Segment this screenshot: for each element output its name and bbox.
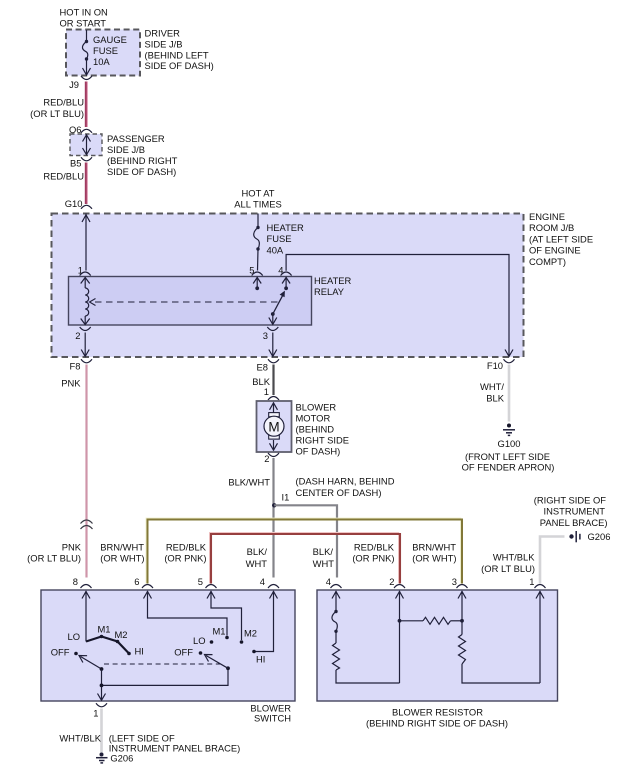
svg-text:HOT IN ON: HOT IN ON xyxy=(60,7,108,18)
svg-text:WHT/BLK: WHT/BLK xyxy=(59,733,101,744)
svg-text:(BEHIND: (BEHIND xyxy=(296,423,335,434)
svg-text:I1: I1 xyxy=(282,492,290,503)
svg-text:RED/BLK: RED/BLK xyxy=(354,542,395,553)
junction block engine room J/B xyxy=(52,214,524,358)
resistor box blower resistor xyxy=(317,590,558,701)
relay contact pin 4 stub xyxy=(282,277,290,288)
svg-text:(FRONT LEFT SIDE: (FRONT LEFT SIDE xyxy=(465,451,550,462)
svg-text:LO: LO xyxy=(193,635,206,646)
label blower motor xyxy=(296,401,349,456)
svg-text:BLK/: BLK/ xyxy=(247,546,268,557)
thermal fuse in resistor xyxy=(334,610,337,613)
svg-text:G100: G100 xyxy=(498,438,521,449)
svg-text:(AT LEFT SIDE: (AT LEFT SIDE xyxy=(529,233,593,244)
svg-text:SIDE OF DASH): SIDE OF DASH) xyxy=(107,166,176,177)
wire RED/BLK switch pin 5 to resistor pin 2 xyxy=(210,533,399,584)
svg-text:F10: F10 xyxy=(487,360,503,371)
blower motor box xyxy=(257,401,292,452)
wire BLK E8 to blower motor xyxy=(272,365,274,396)
wire label BLK/WHT left xyxy=(246,546,268,569)
svg-text:BLK/: BLK/ xyxy=(313,546,334,557)
svg-text:OF DASH): OF DASH) xyxy=(296,445,341,456)
svg-text:BLOWER: BLOWER xyxy=(296,401,337,412)
svg-text:2: 2 xyxy=(389,576,394,587)
svg-text:J9: J9 xyxy=(69,79,79,90)
wire G10 to relay pin 1 xyxy=(82,214,90,271)
svg-text:SIDE J/B: SIDE J/B xyxy=(145,39,183,50)
wire label PNK (OR LT BLU) xyxy=(27,542,82,564)
svg-text:(RIGHT SIDE OF: (RIGHT SIDE OF xyxy=(534,495,606,506)
svg-text:DRIVER: DRIVER xyxy=(145,28,181,39)
svg-text:OR START: OR START xyxy=(60,17,107,28)
svg-text:(OR LT BLU): (OR LT BLU) xyxy=(481,563,535,574)
ground G206 right xyxy=(569,534,573,538)
wire BLK/WHT I1 branch to resistor pin 4 xyxy=(274,505,337,577)
right switch contacts xyxy=(210,640,214,644)
left OFF contact xyxy=(74,652,78,656)
svg-text:BLK: BLK xyxy=(486,392,504,403)
svg-text:OF ENGINE: OF ENGINE xyxy=(529,245,581,256)
svg-text:8: 8 xyxy=(73,576,78,587)
svg-text:F8: F8 xyxy=(70,361,81,372)
svg-text:FUSE: FUSE xyxy=(267,233,292,244)
mechanical link dashed xyxy=(104,663,222,665)
junction block driver side J/B xyxy=(66,30,140,76)
svg-text:OFF: OFF xyxy=(51,647,70,658)
switch box blower switch xyxy=(41,590,295,701)
wire label WHT/BLK (OR LT BLU) xyxy=(481,552,535,575)
svg-text:SIDE J/B: SIDE J/B xyxy=(107,144,145,155)
svg-text:HI: HI xyxy=(256,654,265,665)
svg-text:OF FENDER APRON): OF FENDER APRON) xyxy=(462,461,555,472)
label blower resistor xyxy=(366,707,508,729)
svg-text:LO: LO xyxy=(67,631,80,642)
svg-text:ROOM J/B: ROOM J/B xyxy=(529,222,574,233)
relay coil xyxy=(81,277,90,324)
wire label BRN/WHT (OR WHT) right xyxy=(412,542,456,564)
svg-text:M1: M1 xyxy=(213,626,226,637)
ground G100 xyxy=(507,424,511,428)
svg-text:1: 1 xyxy=(93,708,98,719)
wire label RED/BLK (OR PNK) left xyxy=(164,542,206,564)
svg-text:ENGINE: ENGINE xyxy=(529,211,565,222)
label dash harness xyxy=(296,476,395,499)
svg-text:BRN/WHT: BRN/WHT xyxy=(100,542,144,553)
svg-text:G206: G206 xyxy=(110,753,133,764)
svg-text:(OR PNK): (OR PNK) xyxy=(164,553,206,564)
svg-text:HEATER: HEATER xyxy=(314,275,352,286)
wire BLK/WHT motor to switch pin 4 xyxy=(272,458,274,578)
wire relay pin 4 to F10 xyxy=(286,255,513,357)
svg-text:(BEHIND RIGHT: (BEHIND RIGHT xyxy=(107,155,178,166)
svg-text:M1: M1 xyxy=(98,624,111,635)
wire arrow through passenger J/B xyxy=(83,135,91,156)
inline connector on PNK wire xyxy=(81,520,93,529)
relay switch blade xyxy=(273,295,283,314)
label blower switch xyxy=(250,703,291,724)
resistor element horizontal xyxy=(400,617,463,624)
svg-text:HEATER: HEATER xyxy=(267,222,305,233)
svg-text:BLK/WHT: BLK/WHT xyxy=(228,477,270,488)
wire WHT/BLK switch pin 1 to G206 xyxy=(100,709,103,753)
svg-text:ALL TIMES: ALL TIMES xyxy=(234,199,281,210)
relay contact pin 3 riser xyxy=(269,314,277,324)
label driver side J/B xyxy=(145,28,214,71)
svg-text:PNK: PNK xyxy=(61,378,81,389)
svg-text:2: 2 xyxy=(75,330,80,341)
svg-text:(OR PNK): (OR PNK) xyxy=(352,553,394,564)
svg-text:HI: HI xyxy=(135,646,144,657)
svg-text:(OR LT BLU): (OR LT BLU) xyxy=(30,108,84,119)
svg-text:INSTRUMENT: INSTRUMENT xyxy=(544,506,606,517)
junction block passenger side J/B xyxy=(70,134,102,156)
svg-text:5: 5 xyxy=(198,576,203,587)
svg-text:10A: 10A xyxy=(93,56,110,67)
relay contact pin 5 stub xyxy=(253,277,261,288)
svg-text:G206: G206 xyxy=(588,531,611,542)
svg-text:WHT: WHT xyxy=(246,558,268,569)
svg-text:6: 6 xyxy=(134,576,139,587)
label RED/BLU (OR LT BLU) xyxy=(30,97,84,119)
svg-text:SIDE OF DASH): SIDE OF DASH) xyxy=(145,60,214,71)
svg-text:B5: B5 xyxy=(70,158,81,169)
svg-text:CENTER OF DASH): CENTER OF DASH) xyxy=(296,487,382,498)
node HOT AT ALL TIMES xyxy=(234,188,281,210)
right wiper arm xyxy=(206,656,228,669)
svg-text:(OR WHT): (OR WHT) xyxy=(412,553,456,564)
svg-text:(OR WHT): (OR WHT) xyxy=(100,553,144,564)
wire BRN/WHT switch pin 6 to resistor pin 3 xyxy=(146,518,461,583)
relay mechanical link dashed xyxy=(95,301,279,303)
svg-text:1: 1 xyxy=(264,386,269,397)
svg-text:4: 4 xyxy=(326,576,331,587)
label passenger side J/B xyxy=(107,133,178,177)
svg-text:RIGHT SIDE: RIGHT SIDE xyxy=(296,434,349,445)
svg-text:RED/BLK: RED/BLK xyxy=(166,542,207,553)
svg-text:BRN/WHT: BRN/WHT xyxy=(412,542,456,553)
ground G206 bottom xyxy=(100,753,104,757)
svg-text:RED/BLU: RED/BLU xyxy=(43,171,84,182)
svg-text:BLOWER RESISTOR: BLOWER RESISTOR xyxy=(392,707,483,718)
wire label BRN/WHT (OR WHT) left xyxy=(100,542,144,564)
label left side of instrument panel brace xyxy=(109,733,241,754)
wire WHT/BLK resistor pin 1 to G206 xyxy=(540,537,565,584)
svg-text:WHT/: WHT/ xyxy=(480,381,504,392)
label G206 right side xyxy=(534,495,608,529)
svg-text:40A: 40A xyxy=(267,244,284,255)
svg-text:G10: G10 xyxy=(65,198,83,209)
svg-text:PANEL BRACE): PANEL BRACE) xyxy=(540,517,608,528)
wire RED/BLU J9 to Q6 xyxy=(85,82,87,128)
svg-text:OFF: OFF xyxy=(174,647,193,658)
resistor element pin 4 branch xyxy=(333,631,400,683)
svg-text:3: 3 xyxy=(452,576,457,587)
svg-text:(BEHIND LEFT: (BEHIND LEFT xyxy=(145,49,209,60)
svg-text:(BEHIND RIGHT SIDE OF DASH): (BEHIND RIGHT SIDE OF DASH) xyxy=(366,718,508,729)
svg-text:1: 1 xyxy=(529,576,534,587)
wire wiper common to pin 1 xyxy=(98,668,229,700)
svg-text:COMPT): COMPT) xyxy=(529,256,566,267)
motor M symbol xyxy=(270,403,278,451)
wire label RED/BLK (OR PNK) right xyxy=(352,542,394,564)
left rotary contact arc xyxy=(86,637,129,654)
svg-text:GAUGE: GAUGE xyxy=(93,34,127,45)
svg-text:MOTOR: MOTOR xyxy=(296,412,331,423)
svg-text:PASSENGER: PASSENGER xyxy=(107,133,165,144)
svg-text:(DASH HARN, BEHIND: (DASH HARN, BEHIND xyxy=(296,476,395,487)
svg-text:HOT AT: HOT AT xyxy=(242,188,275,199)
svg-text:4: 4 xyxy=(260,576,265,587)
label engine room J/B xyxy=(529,211,593,267)
wire label BLK/WHT right xyxy=(313,546,335,569)
node HOT IN ON OR START xyxy=(60,7,108,29)
wire WHT/BLK F10 to G100 xyxy=(508,365,511,422)
label WHT/BLK F10 xyxy=(480,381,505,403)
left wiper arm xyxy=(81,657,102,670)
relay box heater relay xyxy=(69,277,312,326)
svg-text:(OR LT BLU): (OR LT BLU) xyxy=(27,553,81,564)
wire PNK F8 to switch pin 8 xyxy=(85,365,87,578)
fuse HEATER 40A xyxy=(254,214,260,271)
svg-text:WHT/BLK: WHT/BLK xyxy=(493,552,535,563)
svg-text:M: M xyxy=(268,420,279,435)
svg-text:SWITCH: SWITCH xyxy=(254,713,291,724)
fuse GAUGE 10A xyxy=(82,30,90,75)
svg-text:M2: M2 xyxy=(115,629,128,640)
svg-text:E8: E8 xyxy=(257,362,268,373)
svg-text:PNK: PNK xyxy=(62,542,82,553)
svg-text:FUSE: FUSE xyxy=(93,45,118,56)
svg-text:RELAY: RELAY xyxy=(314,286,345,297)
svg-text:M2: M2 xyxy=(244,628,257,639)
svg-text:WHT: WHT xyxy=(313,558,335,569)
wire RED/BLU B5 to G10 xyxy=(85,163,87,205)
svg-text:3: 3 xyxy=(263,330,268,341)
svg-text:RED/BLU: RED/BLU xyxy=(43,97,84,108)
resistor element pin 3 branch xyxy=(459,635,541,684)
svg-text:INSTRUMENT PANEL BRACE): INSTRUMENT PANEL BRACE) xyxy=(109,742,241,753)
